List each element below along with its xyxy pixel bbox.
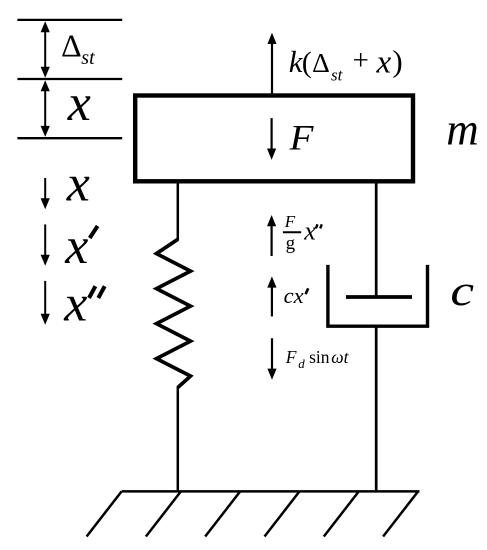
svg-text:x: x <box>66 156 90 213</box>
svg-text:c: c <box>450 267 474 315</box>
svg-text:x: x <box>376 45 392 81</box>
svg-text:+: + <box>353 45 369 77</box>
svg-text:d: d <box>298 356 305 371</box>
svg-text:Δ: Δ <box>61 28 82 64</box>
svg-text:Δ: Δ <box>312 47 330 78</box>
svg-text:x: x <box>303 217 316 246</box>
svg-text:F: F <box>285 347 297 367</box>
svg-text:x: x <box>64 218 88 275</box>
svg-text:m: m <box>446 105 479 155</box>
svg-text:g: g <box>286 233 296 254</box>
svg-text:F: F <box>284 212 296 231</box>
svg-text:st: st <box>331 66 344 85</box>
svg-text:sin: sin <box>309 347 330 367</box>
svg-text:x: x <box>63 276 87 333</box>
svg-text:F: F <box>289 118 314 158</box>
svg-text:): ) <box>392 44 402 79</box>
svg-text:ωt: ωt <box>331 347 349 367</box>
svg-text:(: ( <box>302 46 312 79</box>
svg-text:st: st <box>81 47 95 69</box>
svg-text:x: x <box>67 75 91 132</box>
svg-text:cx: cx <box>284 283 304 308</box>
